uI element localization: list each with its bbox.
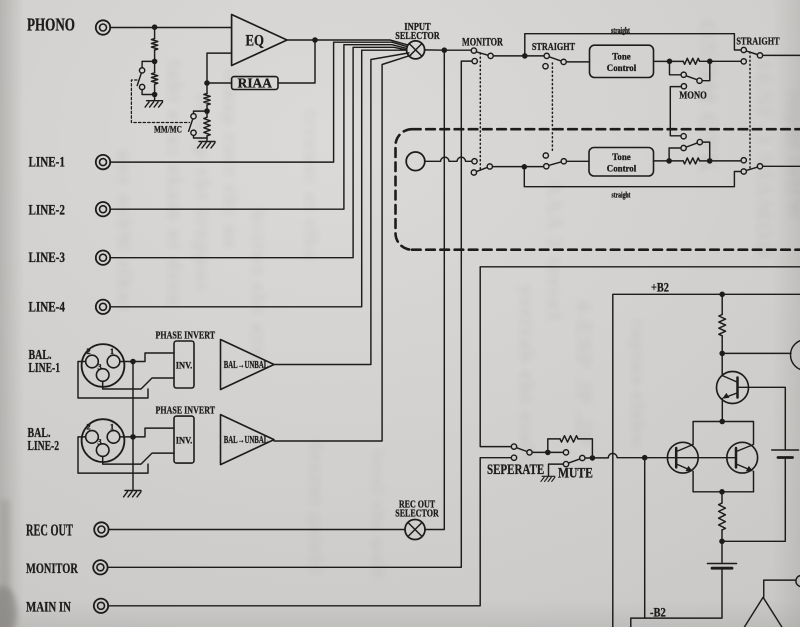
wire tap to REC OUT selector (425, 50, 444, 529)
resistor R4 feedback lower (204, 117, 210, 136)
svg-text:LINE-2: LINE-2 (28, 438, 60, 453)
wire to driver bases with hop (592, 453, 736, 458)
svg-text:denrut gniebi: denrut gniebi (305, 440, 326, 575)
switch STRAIGHT left lower (544, 164, 549, 169)
RCA jack PHONO (96, 20, 110, 34)
wire -B2 return branch (644, 458, 646, 618)
node resistor/collector (719, 351, 725, 357)
RCA jack LINE-4 (96, 300, 110, 314)
node battery tap (719, 539, 725, 545)
RCA jack LINE-3 (96, 251, 110, 265)
block INV. 1 (174, 341, 194, 388)
XLR connector BAL LINE-1 (82, 344, 125, 387)
svg-text:MONITOR: MONITOR (462, 36, 504, 49)
switch MONITOR pole (471, 48, 476, 53)
wire deck2 with hops (425, 157, 472, 161)
wire XLR1 pin1 to INV (120, 353, 174, 362)
wire emitter chain (721, 492, 723, 564)
svg-text:uoy nehW elbac: uoy nehW elbac (113, 150, 135, 314)
wire XLR1 pin3 to INV (103, 378, 174, 389)
svg-text:Tone: Tone (612, 52, 630, 62)
wire seperate pole to node (533, 451, 564, 453)
svg-text:PHASE INVERT: PHASE INVERT (156, 329, 216, 342)
svg-text:LINE-3: LINE-3 (29, 248, 66, 265)
node phono input junction (152, 24, 158, 30)
transistor Q1 (717, 372, 749, 421)
svg-text:LINE-1: LINE-1 (29, 360, 61, 375)
svg-text:Control: Control (607, 164, 637, 174)
ground phono load (145, 101, 163, 107)
wire monitor pole to straight switch (494, 55, 544, 57)
wire tone control 1 output (654, 60, 741, 62)
svg-text:EQ: EQ (246, 32, 264, 50)
wire XLR1 pin2 loop (78, 362, 148, 399)
svg-text:tuptuo elohw: tuptuo elohw (627, 320, 648, 450)
svg-text:Tone: Tone (612, 152, 630, 162)
dotted link monitor switches (479, 53, 481, 170)
node R1/R2 junction (152, 59, 158, 65)
wire MAIN IN jack to seperate switch (108, 458, 511, 606)
node RIAA tap (204, 80, 210, 86)
wire output-stage feed (480, 267, 800, 447)
transistor Q3 (727, 442, 758, 491)
svg-text:LINE-4: LINE-4 (29, 298, 66, 315)
contact main-in seperate (511, 455, 516, 460)
RCA jack MONITOR (93, 560, 107, 574)
wire LINE-2 to selector (110, 45, 406, 210)
svg-text:4-ENP .lP .2P: 4-ENP .lP .2P (572, 300, 596, 446)
rotary switch REC OUT SELECTOR (405, 520, 425, 540)
svg-text:Control: Control (607, 63, 637, 73)
svg-text:2: 2 (86, 346, 90, 356)
node seperate/mute junction (545, 450, 551, 456)
wire upper channel output (763, 54, 800, 56)
RCA jack MAIN IN (94, 599, 108, 613)
battery B1 bias (772, 449, 799, 451)
switch STRAIGHT right lower (741, 169, 746, 174)
resistor mono bridge lower (683, 158, 699, 164)
monitor lower contact (472, 58, 477, 63)
wire straight bus upper (525, 34, 741, 56)
node straight bus tap (522, 53, 528, 59)
svg-text:LINE-2: LINE-2 (29, 201, 65, 218)
wire to right-edge stage (722, 352, 791, 354)
wire to tone control 2 (567, 160, 589, 162)
dashed link MM/MC (131, 80, 189, 123)
wire BAL LINE-1 to selector (274, 53, 409, 365)
wire XLR2 pin2 loop (78, 437, 148, 473)
node EQ output RIAA tap (312, 37, 318, 43)
wire tone control 2 output (654, 160, 741, 162)
amp BAL-UNBAL 2 (221, 415, 275, 465)
ground feedback divider (198, 142, 216, 148)
svg-text:+B2: +B2 (651, 282, 669, 295)
wire RIAA left lead (207, 82, 232, 84)
dotted link straight-right switches (749, 52, 751, 169)
wire selector output (425, 49, 471, 51)
svg-text:MONITOR: MONITOR (26, 559, 78, 576)
resistor R3 feedback upper (204, 94, 210, 105)
amp output triangle partial (744, 580, 795, 627)
svg-text:level eht wolf: level eht wolf (368, 450, 388, 579)
op-amp EQ (232, 15, 287, 66)
rotary switch INPUT SELECTOR (407, 41, 425, 59)
XLR connector BAL LINE-2 (82, 419, 125, 462)
wire LINE-4 to selector (110, 50, 406, 307)
svg-text:1ENF-3 NIAMOD: 1ENF-3 NIAMOD (752, 60, 777, 259)
svg-text:MUTE: MUTE (558, 464, 593, 480)
ground balanced inputs (124, 491, 142, 497)
wire LINE-1 to selector (110, 42, 407, 162)
wire lower rail of pair (693, 491, 753, 493)
svg-text:INV.: INV. (176, 435, 192, 446)
dashed enclosure balanced deck (396, 129, 800, 250)
transistor Q2 (667, 442, 698, 491)
monitor contact (488, 53, 493, 58)
wire deck2 pole to straight2 (493, 166, 544, 168)
svg-text:3: 3 (97, 437, 101, 447)
node Q1 emitter rail (719, 419, 725, 425)
svg-text:1: 1 (110, 346, 114, 356)
ground mute (541, 476, 555, 481)
svg-text:-B2: -B2 (650, 607, 666, 620)
node mute output (590, 455, 596, 461)
svg-text:tupni loHW: tupni loHW (783, 90, 800, 222)
svg-text:PHASE INVERT: PHASE INVERT (156, 404, 216, 417)
svg-text:SELECTOR: SELECTOR (395, 508, 439, 519)
wire lower channel output (763, 165, 800, 167)
svg-text:REC OUT: REC OUT (26, 521, 74, 539)
node XLR2 pin1 tap (130, 434, 136, 440)
svg-text:yrettab eht esolC: yrettab eht esolC (515, 285, 539, 471)
dotted link straight-left switches (551, 63, 553, 153)
svg-text:taht erus ekam ot deen: taht erus ekam ot deen (163, 60, 187, 308)
svg-text:SELECTOR: SELECTOR (395, 30, 440, 41)
svg-text:straight: straight (612, 192, 631, 200)
svg-text:MM/MC: MM/MC (154, 125, 182, 135)
wire PHONO jack to EQ input (110, 27, 231, 29)
battery B2 bias (708, 563, 737, 565)
svg-text:STRAIGHT: STRAIGHT (532, 41, 576, 53)
wire to tone control 1 (567, 61, 590, 63)
wire RIAA right lead (278, 40, 315, 83)
svg-text:hctiws eht nrut: hctiws eht nrut (247, 210, 269, 369)
node rec-out tap (442, 47, 448, 53)
svg-text:PHONO: PHONO (27, 16, 75, 35)
rotary selector second deck (406, 152, 425, 171)
switch MONO bypass upper (670, 61, 681, 75)
resistor mute bridge (548, 439, 560, 453)
bleed-through text (back of page) (113, 20, 800, 579)
svg-text:BAL→UNBAL: BAL→UNBAL (224, 434, 269, 446)
svg-text:STRAIGHT: STRAIGHT (736, 35, 780, 47)
node lower rail tap (719, 489, 725, 495)
svg-text:INV.: INV. (176, 360, 192, 371)
switch MONO pole (681, 84, 686, 89)
svg-text:1: 1 (110, 421, 114, 431)
monitor lever (477, 52, 488, 55)
svg-text:LINE-1: LINE-1 (29, 153, 65, 170)
node +B2 tap (719, 292, 725, 298)
wire straight bus lower (524, 167, 741, 187)
wire REC OUT jack to selector (109, 529, 405, 531)
svg-text:BAL→UNBAL: BAL→UNBAL (224, 358, 269, 370)
node mono res right (707, 59, 713, 65)
RCA jack LINE-1 (96, 155, 110, 169)
wire collector chain (721, 294, 723, 375)
svg-text:rewop eht troppus: rewop eht troppus (191, 95, 215, 293)
node mono res left (667, 59, 673, 65)
node mono2 res left (666, 158, 672, 164)
svg-text:tcennoc ot elba: tcennoc ot elba (300, 110, 321, 261)
wire XLR2 pin1 to INV (120, 428, 174, 437)
svg-text:MONO: MONO (679, 91, 707, 102)
switch STRAIGHT left upper (544, 53, 549, 58)
wire -B2 rail (631, 568, 722, 627)
wire monitor return to jack (108, 61, 472, 567)
switch SEPERATE (511, 444, 516, 449)
block Tone Control upper (590, 45, 654, 77)
switch MM/MC section A (137, 61, 154, 94)
switch monitor deck2 (472, 159, 477, 164)
svg-text:2: 2 (86, 421, 90, 431)
transistor partial right edge (791, 340, 800, 371)
resistor R2 phono lower (151, 73, 157, 84)
wire +B2 rail (613, 294, 800, 627)
svg-text:RIAA: RIAA (238, 76, 273, 91)
wire XLR ground run (132, 362, 134, 490)
switch MONO bypass lower (669, 148, 681, 161)
block Tone Control lower (589, 148, 654, 177)
amp BAL-UNBAL 1 (221, 340, 275, 390)
svg-text:SEPERATE: SEPERATE (487, 462, 544, 478)
svg-text:straight: straight (611, 27, 630, 35)
svg-text:AAA 2 tresnI: AAA 2 tresnI (543, 180, 567, 323)
svg-text:3: 3 (97, 362, 101, 372)
node XLR1 ground tap (130, 359, 136, 365)
wire EQ output (287, 40, 407, 45)
node R3/R4 junction (204, 108, 210, 114)
wire EQ feedback input (207, 53, 232, 82)
wire XLR2 pin3 to INV (103, 453, 174, 464)
RCA jack REC OUT (94, 522, 108, 536)
wire feedback divider chain (206, 83, 208, 142)
wire mute pole to node (585, 457, 592, 459)
block INV. 2 (174, 416, 194, 463)
node mono2 res right (707, 158, 713, 164)
contact dead mute row (563, 450, 568, 455)
resistor collector load (719, 315, 726, 336)
resistor R1 phono upper (151, 39, 157, 50)
RCA jack LINE-2 (96, 202, 110, 216)
node R2/ground junction (152, 92, 158, 98)
wire Q1 base to battery B1 (739, 387, 785, 450)
wire LINE-3 to selector (110, 47, 406, 257)
wire phono divider chain (154, 28, 156, 101)
connector circle right edge (796, 575, 800, 586)
node base line tap (642, 455, 648, 461)
block RIAA (232, 76, 278, 91)
wire battery1 loop (722, 458, 785, 542)
resistor mono bridge upper (683, 58, 699, 64)
resistor emitter (719, 503, 726, 530)
node lower bus tap (522, 164, 528, 170)
svg-text:lenap raer eht no: lenap raer eht no (219, 70, 241, 250)
switch MM/MC section B (189, 111, 207, 138)
wire BAL LINE-2 to selector (274, 55, 411, 441)
wire upper rail of pair (693, 422, 753, 445)
switch MUTE (549, 464, 564, 476)
svg-text:MAIN IN: MAIN IN (26, 598, 71, 615)
switch STRAIGHT right upper (741, 47, 746, 52)
